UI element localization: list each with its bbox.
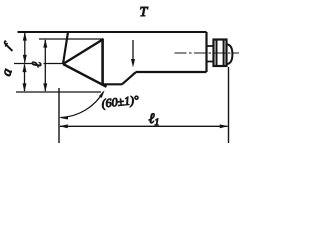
l1 arrowheads — [59, 124, 229, 128]
screw head inner line right — [223, 40, 225, 67]
notch ramp edge — [122, 72, 136, 84]
svg-text:f: f — [0, 39, 14, 51]
body top edge with f extension — [18, 31, 207, 33]
svg-text:a: a — [0, 67, 16, 78]
notch bottom edge — [102, 83, 122, 85]
dimension f line — [24, 33, 26, 63]
angle arc arrowhead left — [59, 116, 68, 120]
svg-text:(60±1)°: (60±1)° — [101, 93, 140, 111]
centerline — [175, 52, 240, 54]
angle arc arrowhead right — [99, 90, 105, 98]
l1 dimension line — [60, 125, 228, 127]
body right edge — [205, 32, 207, 72]
dimension a line — [24, 65, 26, 92]
angle leader arc — [61, 92, 104, 118]
cone base edge — [101, 39, 104, 85]
dimension l line — [44, 40, 46, 91]
svg-text:T: T — [140, 5, 149, 20]
extension line l top — [39, 38, 104, 40]
tooth face edge — [63, 32, 68, 64]
screw head outline — [214, 40, 227, 67]
dimension a arrowheads — [23, 64, 27, 93]
extension line bottom — [16, 91, 101, 93]
svg-text:ℓ: ℓ — [29, 61, 44, 67]
screw neck — [207, 46, 214, 62]
cone lower edge — [63, 64, 107, 87]
svg-text:ℓ1: ℓ1 — [149, 111, 160, 128]
dimension f arrowheads — [23, 32, 27, 64]
screw head inner line left — [216, 40, 218, 67]
body bottom edge — [136, 71, 207, 73]
l1 extension left — [58, 88, 60, 143]
cone upper edge — [63, 39, 104, 64]
dimension l arrowheads — [43, 39, 47, 92]
T pointer arrow — [132, 40, 134, 60]
rounded cap — [227, 44, 233, 64]
extension line at apex level — [14, 63, 63, 65]
l1 extension right — [228, 67, 230, 143]
